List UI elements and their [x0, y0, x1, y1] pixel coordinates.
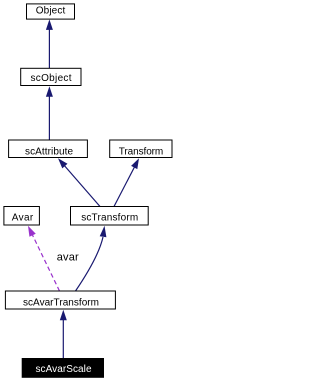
svg-text:scObject: scObject — [31, 73, 72, 84]
node Avar — [4, 207, 40, 226]
svg-text:Transform: Transform — [119, 146, 164, 157]
node scTransform — [71, 207, 149, 226]
svg-text:Object: Object — [36, 6, 66, 17]
svg-text:scAttribute: scAttribute — [25, 146, 73, 157]
svg-text:Avar: Avar — [12, 213, 34, 224]
node Object — [27, 4, 75, 19]
wire: scAttribute to scObject inheritance arrow — [46, 86, 53, 140]
wire: scAvarTransform to Avar usage arrow (dashed) — [28, 226, 60, 291]
wire: scTransform to scAttribute inheritance arrow — [58, 158, 100, 206]
node scAvarTransform — [5, 291, 115, 309]
wire: scTransform to Transform inheritance arrow — [114, 158, 139, 206]
svg-text:scAvarScale: scAvarScale — [36, 364, 92, 375]
node scAttribute — [9, 140, 88, 158]
svg-text:scAvarTransform: scAvarTransform — [23, 298, 99, 309]
node scAvarScale (current class, black) — [22, 359, 103, 378]
wire: scAvarScale to scAvarTransform inheritance arrow — [60, 310, 67, 359]
svg-text:avar: avar — [57, 252, 79, 264]
wire: scAvarTransform to scTransform inheritance curve — [76, 226, 107, 291]
svg-text:scTransform: scTransform — [81, 213, 138, 224]
node scObject — [21, 68, 81, 85]
node Transform — [110, 140, 172, 158]
wire: scObject to Object inheritance arrow — [46, 19, 53, 68]
